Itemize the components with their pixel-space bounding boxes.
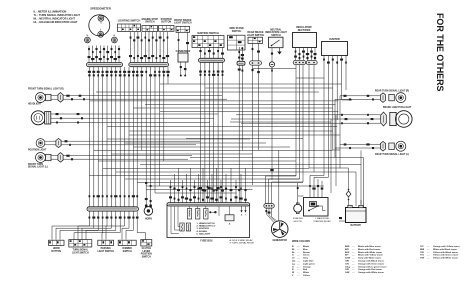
- svg-text:....: ....: [352, 266, 355, 268]
- svg-text:Black: Black: [303, 246, 310, 248]
- svg-text:IGNITOR: IGNITOR: [329, 38, 340, 41]
- svg-text:G: G: [292, 255, 294, 257]
- fuse F2 (headlight lo): [196, 209, 200, 220]
- legend indicator abbreviations: [34, 9, 81, 23]
- wire speedometer leads to connector: [88, 46, 121, 63]
- rear turn signal light R (lamp L5): [335, 89, 409, 102]
- svg-text:....: ....: [297, 266, 300, 268]
- wire rear brake drops: [252, 43, 260, 60]
- svg-text:Black with Yellow tracer: Black with Yellow tracer: [358, 254, 383, 257]
- wire fuse box feeders: [169, 168, 247, 203]
- svg-text:Yellow: Yellow: [303, 275, 310, 277]
- speedometer SP1: [89, 6, 111, 36]
- svg-text:Yellow with Black tracer: Yellow with Black tracer: [433, 251, 458, 254]
- svg-text:IGNITION SWITCH: IGNITION SWITCH: [197, 32, 219, 35]
- svg-text:Orange with Yellow tracer: Orange with Yellow tracer: [433, 245, 460, 248]
- svg-text:Red: Red: [303, 269, 308, 271]
- svg-text:Orange with Red tracer: Orange with Red tracer: [358, 268, 382, 271]
- svg-text:TL: TL: [100, 23, 102, 25]
- svg-text:5. TAILLIGHT: 5. TAILLIGHT: [197, 233, 211, 236]
- page title FOR THE OTHERS: [435, 13, 445, 91]
- svg-text:....: ....: [427, 255, 430, 257]
- svg-text:PASSING: PASSING: [101, 247, 111, 250]
- svg-text:Orange with Lt green tracer: Orange with Lt green tracer: [358, 265, 387, 268]
- svg-text:....: ....: [297, 255, 300, 257]
- wire generator leads: [265, 151, 278, 223]
- svg-text:Black with Red tracer: Black with Red tracer: [358, 248, 380, 251]
- front turn signal light L (lamp L4): [28, 153, 63, 169]
- svg-text:HL: HL: [113, 35, 115, 37]
- neutral indication light switch SW8: [265, 28, 287, 47]
- fuse F1 (headlight hi): [187, 209, 191, 220]
- svg-text:LIGHTING SWITCH: LIGHTING SWITCH: [118, 20, 141, 23]
- svg-text:IL : METER ILLUMINATION: IL : METER ILLUMINATION: [34, 9, 67, 13]
- wire side stand / neutral drops: [238, 65, 274, 202]
- svg-text:....: ....: [297, 249, 300, 251]
- svg-text:Orange with Green tracer: Orange with Green tracer: [358, 262, 384, 265]
- wire front brake switch drops: [178, 32, 189, 53]
- relay T pins (turn signal relay): [240, 206, 247, 216]
- wire bar B extra drops: [140, 67, 169, 193]
- svg-text:NL : NEUTRAL INDICATOR LIGHT: NL : NEUTRAL INDICATOR LIGHT: [34, 16, 76, 20]
- svg-text:FRONT TURN SIGNAL LIGHT (R): FRONT TURN SIGNAL LIGHT (R): [28, 87, 64, 90]
- starter button SW3: [159, 18, 175, 32]
- svg-text:B/Bl: B/Bl: [345, 246, 350, 248]
- svg-text:....: ....: [352, 269, 355, 271]
- svg-text:....: ....: [352, 263, 355, 265]
- svg-text:SPEEDOMETER: SPEEDOMETER: [90, 6, 111, 10]
- starter relay RL1 with main fuse: [304, 198, 332, 223]
- fuse F5 (taillight): [186, 223, 190, 231]
- svg-text:TL : TURN SIGNAL INDICATOR LIG: TL : TURN SIGNAL INDICATOR LIGHT: [34, 13, 81, 17]
- svg-text:O/R: O/R: [345, 269, 349, 271]
- svg-text:....: ....: [352, 258, 355, 260]
- wire switch leads to connector bar B: [129, 32, 169, 63]
- fuse box relay note: [230, 239, 255, 245]
- svg-text:STARTER RELAY: STARTER RELAY: [313, 220, 331, 223]
- svg-text:....: ....: [297, 275, 300, 277]
- svg-text:CONDENSER: CONDENSER: [176, 51, 191, 53]
- svg-text:Orange with White tracer: Orange with White tracer: [358, 271, 384, 274]
- svg-text:LIGHT SWITCH: LIGHT SWITCH: [247, 34, 265, 37]
- connector (regulator oval 2): [306, 60, 317, 64]
- wire front turn R to harness: [63, 95, 227, 101]
- svg-text:....: ....: [297, 252, 300, 254]
- svg-text:FOR THE OTHERS: FOR THE OTHERS: [435, 13, 445, 91]
- svg-text:T: TURN SIGNAL RELAY: T: TURN SIGNAL RELAY: [230, 242, 255, 245]
- svg-text:NL: NL: [86, 35, 88, 37]
- svg-text:W/B: W/B: [420, 249, 425, 251]
- svg-text:HL : HIGH BEAM INDICATOR LIGHT: HL : HIGH BEAM INDICATOR LIGHT: [34, 20, 78, 24]
- svg-text:....: ....: [297, 263, 300, 265]
- wire main vertical bundle (bars A/B to handlebar coupler): [88, 67, 139, 207]
- svg-text:Blue: Blue: [303, 249, 309, 251]
- relay A (side stand relay, in fuse box): [225, 215, 234, 226]
- svg-text:....: ....: [427, 249, 430, 251]
- svg-text:Black with Blue tracer: Black with Blue tracer: [358, 245, 381, 248]
- svg-text:WIRE COLORS: WIRE COLORS: [292, 240, 310, 243]
- wire front turn L to harness: [63, 155, 192, 161]
- svg-text:SWITCH: SWITCH: [142, 256, 151, 258]
- wire starter relay feeders: [297, 176, 329, 205]
- wire neutral switch drop: [271, 48, 273, 62]
- ground (neutral switch): [277, 48, 281, 55]
- connector bar C (ignition coupler): [199, 58, 225, 62]
- rear brake light switch SW7: [247, 31, 265, 43]
- ignitor U2: [322, 38, 348, 55]
- rear turn signal light L (lamp L7): [335, 141, 409, 156]
- svg-text:White with Black tracer: White with Black tracer: [433, 248, 457, 251]
- svg-text:1. HEADLIGHT HI: 1. HEADLIGHT HI: [197, 222, 215, 225]
- wire harness horizontal runs: [89, 69, 363, 194]
- svg-text:....: ....: [352, 255, 355, 257]
- starter motor M1: [293, 203, 303, 223]
- svg-text:O: O: [292, 266, 294, 268]
- svg-text:GENERATOR: GENERATOR: [272, 239, 287, 242]
- fuse list text: [197, 222, 216, 236]
- svg-text:REAR TURN SIGNAL LIGHT (R): REAR TURN SIGNAL LIGHT (R): [375, 89, 409, 92]
- svg-text:Gr: Gr: [292, 258, 295, 260]
- regulator/rectifier U1: [293, 26, 317, 48]
- svg-text:Light green: Light green: [303, 262, 316, 265]
- svg-text:DIMMER: DIMMER: [123, 248, 133, 250]
- turn signal light switch pod SW10: [69, 240, 92, 255]
- wire ignitor leads: [323, 56, 347, 69]
- front brake light switch SW4: [174, 19, 192, 33]
- bulb NL (neutral indicator): [85, 35, 91, 43]
- svg-text:HORN: HORN: [145, 218, 152, 220]
- svg-text:Orange with Black tracer: Orange with Black tracer: [358, 260, 384, 263]
- svg-text:STARTER: STARTER: [293, 217, 303, 220]
- svg-text:....: ....: [297, 269, 300, 271]
- position light lamp L3: [28, 138, 61, 151]
- fuse F3 (ignition): [204, 209, 208, 220]
- svg-text:SWITCH: SWITCH: [145, 21, 155, 24]
- lighting switch SW1: [118, 20, 141, 32]
- fuse box FB1: [167, 203, 250, 243]
- headlight lamp L2: [28, 103, 51, 125]
- svg-text:Gray: Gray: [303, 258, 309, 260]
- svg-text:....: ....: [427, 246, 430, 248]
- svg-text:Lbl: Lbl: [292, 261, 296, 263]
- svg-text:MOTOR: MOTOR: [294, 221, 303, 223]
- svg-text:A: SIDE STAND RELAY: A: SIDE STAND RELAY: [230, 239, 254, 242]
- svg-text:Br: Br: [292, 252, 295, 254]
- wire position light to harness: [61, 140, 200, 146]
- wire battery negative lead: [339, 200, 361, 221]
- svg-text:O/G: O/G: [345, 263, 349, 265]
- wire regulator drops to generator/battery: [266, 65, 357, 206]
- svg-text:....: ....: [352, 249, 355, 251]
- svg-text:....: ....: [297, 258, 300, 260]
- connector (side stand coupler): [237, 61, 245, 65]
- svg-text:BUTTON: BUTTON: [51, 251, 61, 253]
- bulb TL (turn indicator): [98, 15, 104, 24]
- condenser box: [176, 51, 191, 77]
- side stand switch SW6: [228, 27, 246, 50]
- wire ignition bundle drops: [199, 62, 224, 202]
- svg-text:FUSE BOX: FUSE BOX: [200, 239, 213, 242]
- engine stop switch SW2: [142, 18, 159, 32]
- svg-text:3. IGNITION: 3. IGNITION: [197, 228, 210, 230]
- svg-text:SWITCH: SWITCH: [232, 30, 242, 33]
- svg-text:O/B: O/B: [345, 261, 349, 263]
- svg-text:Yellow with Green tracer: Yellow with Green tracer: [433, 254, 459, 257]
- generator G1: [271, 221, 288, 242]
- bulb IL (meter illumination): [98, 29, 104, 37]
- wire handlebar coupler drops to switch pods: [52, 211, 146, 239]
- connector handlebar coupler bar: [87, 207, 139, 211]
- svg-text:HORN: HORN: [53, 248, 60, 250]
- svg-text:O/Y: O/Y: [420, 246, 424, 248]
- svg-text:IL: IL: [100, 29, 102, 31]
- svg-text:RECTIFIER: RECTIFIER: [298, 29, 311, 32]
- svg-text:FRONT TURN: FRONT TURN: [28, 164, 43, 166]
- battery BT1: [346, 205, 367, 227]
- brake light/taillight lamp L6: [231, 106, 412, 127]
- svg-text:BUTTON: BUTTON: [161, 21, 171, 24]
- svg-text:Gray with White tracer: Gray with White tracer: [358, 257, 381, 260]
- svg-text:Light blue: Light blue: [303, 260, 314, 263]
- connector bar A (meter coupler): [87, 63, 123, 67]
- svg-text:....: ....: [297, 272, 300, 274]
- svg-text:B/Y: B/Y: [345, 255, 349, 257]
- svg-text:Y/B: Y/B: [420, 252, 424, 254]
- svg-text:POSITION: POSITION: [141, 254, 152, 256]
- svg-text:LIGHT SWITCH: LIGHT SWITCH: [174, 22, 192, 25]
- svg-text:HEADLIGHT: HEADLIGHT: [28, 103, 42, 106]
- svg-text:....: ....: [427, 258, 430, 260]
- svg-text:Brown: Brown: [303, 252, 310, 254]
- svg-text:White: White: [303, 271, 310, 274]
- horn H1: [144, 67, 153, 220]
- svg-text:O/Lg: O/Lg: [345, 266, 351, 268]
- svg-text:Y/G: Y/G: [420, 255, 424, 257]
- connector (neutral round): [269, 62, 274, 67]
- svg-text:Orange: Orange: [303, 266, 311, 268]
- dimmer switch pod SW12: [118, 240, 136, 253]
- svg-text:LIGHT SWITCH: LIGHT SWITCH: [72, 252, 89, 254]
- svg-text:....: ....: [427, 252, 430, 254]
- ignition switch SW5: [192, 32, 224, 47]
- wire ignition switch leads: [199, 48, 224, 59]
- svg-text:....: ....: [297, 261, 300, 263]
- svg-text:SWITCH: SWITCH: [123, 251, 132, 253]
- front turn signal light R (lamp L1): [28, 87, 64, 102]
- connector bar B (handlebar switch coupler): [129, 63, 169, 67]
- svg-text:....: ....: [352, 272, 355, 274]
- svg-text:....: ....: [352, 252, 355, 254]
- connector (generator oval): [264, 204, 275, 209]
- connector (regulator oval 1): [293, 60, 306, 64]
- wire colors legend: [292, 240, 460, 277]
- svg-text:Green: Green: [303, 255, 310, 257]
- svg-text:TURN SIGNAL: TURN SIGNAL: [72, 249, 88, 252]
- clutch lever position switch pod SW13: [141, 240, 152, 259]
- passing light switch pod SW11: [97, 240, 114, 253]
- fuse main (battery lead): [346, 188, 351, 205]
- wire right side verticals: [331, 96, 364, 207]
- svg-text:LEVER: LEVER: [142, 251, 150, 253]
- fuse F4 (signal): [180, 223, 184, 231]
- horn button pod SW9: [49, 240, 65, 253]
- wire regulator leads: [294, 48, 316, 61]
- svg-text:CLUTCH: CLUTCH: [142, 248, 152, 250]
- svg-text:4. SIGNAL: 4. SIGNAL: [197, 230, 208, 233]
- svg-text:LIGHT SWITCH: LIGHT SWITCH: [97, 251, 114, 253]
- wire fuse box internal links: [171, 206, 230, 233]
- svg-text:BATTERY: BATTERY: [351, 224, 362, 227]
- svg-text:REAR TURN SIGNAL LIGHT (L): REAR TURN SIGNAL LIGHT (L): [375, 153, 409, 156]
- svg-text:B/R: B/R: [345, 249, 349, 251]
- svg-text:1 MAIN FUSE: 1 MAIN FUSE: [315, 217, 329, 220]
- svg-text:Yellow with White tracer: Yellow with White tracer: [433, 257, 458, 260]
- svg-text:SIGNAL LIGHT (L): SIGNAL LIGHT (L): [28, 166, 48, 169]
- wire ignitor drops: [324, 68, 352, 177]
- svg-text:POSITION LIGHT: POSITION LIGHT: [28, 150, 47, 152]
- svg-text:BRAKE LIGHT/TAILLIGHT: BRAKE LIGHT/TAILLIGHT: [383, 106, 412, 109]
- svg-text:2. HEADLIGHT LO: 2. HEADLIGHT LO: [197, 225, 216, 228]
- svg-text:Black with White tracer: Black with White tracer: [358, 251, 382, 254]
- wire headlight leads: [51, 113, 218, 124]
- wire side stand drops: [238, 47, 244, 61]
- svg-text:....: ....: [352, 246, 355, 248]
- bulb HL (high beam indicator): [112, 35, 118, 43]
- svg-text:SWITCH: SWITCH: [271, 34, 281, 37]
- svg-text:....: ....: [352, 261, 355, 263]
- svg-text:....: ....: [297, 246, 300, 248]
- connector (rear brake oval): [250, 61, 262, 65]
